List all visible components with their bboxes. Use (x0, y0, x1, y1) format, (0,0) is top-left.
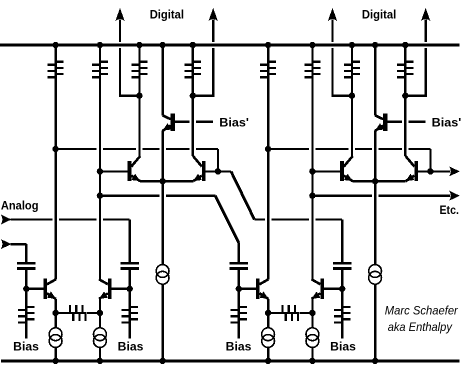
svg-text:Bias': Bias' (219, 116, 249, 130)
resistor Rb2 bias (122, 306, 138, 338)
wire cross-couple A2 (265, 146, 431, 171)
wire (112, 270, 133, 307)
wire diagonal B1 (215, 196, 239, 262)
svg-text:Digital: Digital (362, 8, 396, 22)
Analog input arrow 2 (1, 239, 27, 262)
Etc output arrow 1 (430, 166, 459, 176)
wire Bias' lead (387, 120, 426, 122)
wire (23, 270, 43, 307)
svg-text:Bias': Bias' (432, 116, 461, 130)
node VCC taps cell 2 (265, 42, 409, 48)
Digital output arrow 3 (328, 8, 337, 42)
transistor Q1 (43, 279, 56, 299)
current source I2 (94, 328, 107, 364)
svg-text:Analog: Analog (1, 199, 39, 213)
svg-text:Bias: Bias (226, 339, 252, 353)
wire (265, 299, 271, 328)
wire base Q9 (418, 168, 434, 174)
current source I5 (306, 328, 319, 364)
wire (311, 299, 313, 328)
wire (331, 48, 352, 96)
VCC rail (top) (0, 44, 460, 47)
transistor Q5 (163, 114, 175, 131)
resistor RE1 (56, 305, 104, 321)
wire (374, 130, 376, 181)
transistor Q8 (340, 156, 353, 181)
current source I4 (262, 328, 275, 364)
capacitor C4 (333, 263, 351, 268)
wire emitter rail (352, 178, 405, 184)
wire (405, 48, 427, 96)
resistor R6 (304, 44, 320, 78)
wire base Q3 (97, 168, 128, 174)
wire base Q4 (206, 168, 222, 174)
resistor Rb3 bias (231, 306, 247, 338)
wire cross-couple A1 (52, 146, 218, 171)
transistor Q6 (256, 279, 269, 299)
wire (374, 44, 376, 116)
wire (99, 77, 101, 280)
wire cross-couple B2 (309, 191, 460, 201)
wire (311, 77, 313, 280)
wire (402, 77, 408, 157)
wire Bias' lead (174, 120, 213, 122)
svg-text:Bias: Bias (330, 339, 356, 353)
Digital output arrow 4 (421, 8, 430, 42)
Digital output arrow 2 (209, 8, 218, 42)
resistor R3 (131, 44, 147, 78)
resistor R7 (344, 44, 360, 78)
transistor Q10 (375, 114, 387, 131)
wire (193, 48, 215, 96)
wire (161, 44, 163, 116)
wire cross-couple B1 (97, 193, 216, 199)
transistor Q2 (99, 279, 112, 299)
wire (324, 270, 345, 307)
current source I3 (156, 181, 169, 364)
current source I1 (49, 328, 62, 364)
resistor RE2 (268, 305, 315, 321)
resistor Rb1 bias (18, 306, 34, 338)
wire (236, 270, 256, 307)
wire (52, 299, 58, 328)
svg-text:Etc.: Etc. (440, 203, 459, 217)
transistor Q3 (128, 156, 141, 181)
capacitor C2 (121, 263, 139, 268)
resistor R2 (92, 44, 108, 78)
svg-text:Bias: Bias (13, 339, 39, 353)
resistor R5 (260, 44, 276, 78)
svg-text:aka Enthalpy: aka Enthalpy (388, 320, 453, 334)
current source I6 (369, 181, 382, 364)
wire (54, 77, 56, 280)
resistor R8 (397, 44, 413, 78)
wire base Q8 (309, 168, 340, 174)
capacitor C3 (230, 263, 248, 268)
wire diagonal A1 (218, 171, 255, 219)
Digital output arrow 1 (115, 8, 124, 42)
capacitor C1 (17, 263, 35, 268)
resistor R1 (48, 44, 64, 78)
transistor Q7 (312, 279, 325, 299)
wire emitter rail (140, 178, 193, 184)
wire (136, 77, 142, 157)
transistor Q9 (406, 156, 419, 181)
svg-text:Digital: Digital (150, 8, 184, 22)
wire (161, 130, 163, 181)
node VCC taps cell 1 (52, 42, 196, 48)
Analog input arrow 1 (1, 215, 53, 225)
wire (119, 48, 139, 96)
wire (190, 77, 196, 157)
ground rail (bottom) (1, 360, 460, 363)
svg-text:Marc Schaefer: Marc Schaefer (385, 304, 459, 318)
wire (99, 299, 101, 328)
wire stage2 input 1 (254, 220, 342, 263)
wire (267, 77, 269, 280)
svg-text:Bias: Bias (118, 339, 144, 353)
wire (349, 77, 355, 157)
wire analog input 1 (59, 220, 130, 263)
resistor R4 (185, 44, 201, 78)
transistor Q4 (193, 156, 206, 181)
resistor Rb4 bias (334, 306, 350, 338)
